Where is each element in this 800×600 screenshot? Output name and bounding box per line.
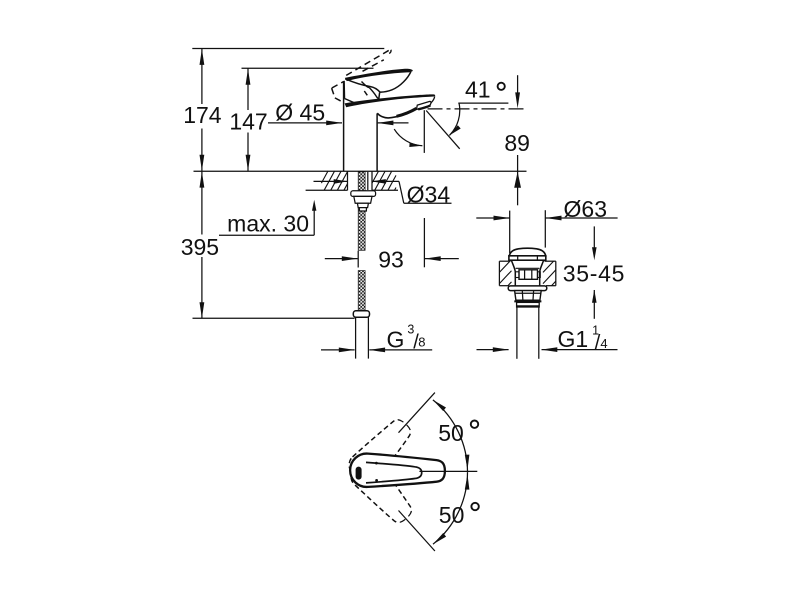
arrowheads dia45 xyxy=(326,121,342,126)
degree sign 41 xyxy=(498,83,505,90)
extension diagonals xyxy=(399,393,435,433)
147 reference line xyxy=(242,67,374,69)
tailpipe G1 1/4 xyxy=(516,307,518,359)
spout tip face xyxy=(431,96,435,103)
column edges xyxy=(343,81,345,171)
arrowheads G1 1/4 xyxy=(493,347,509,352)
svg-text:Ø 45: Ø 45 xyxy=(275,99,325,125)
tailpiece tube G3/8 xyxy=(355,317,357,358)
O34 leader xyxy=(372,180,399,182)
dashed rotated levers xyxy=(343,412,419,529)
hose end fitting xyxy=(353,311,369,317)
degree sign 50 lower xyxy=(471,503,478,510)
spout underside xyxy=(377,109,417,118)
svg-text:174: 174 xyxy=(183,102,222,128)
counter baseline xyxy=(194,170,527,172)
arrowheads dia63 xyxy=(494,216,510,221)
svg-text:max. 30: max. 30 xyxy=(227,210,309,236)
89 dim line xyxy=(517,75,519,98)
solid handle lever (thick) xyxy=(345,69,413,81)
svg-text:8: 8 xyxy=(418,334,425,349)
svg-text:50: 50 xyxy=(438,420,464,446)
degree sign 50 upper xyxy=(471,421,478,428)
lever right curve down to body xyxy=(380,72,411,92)
threaded rod in shank + below xyxy=(358,172,365,251)
93 extension line in hose gap xyxy=(357,251,359,268)
arrows dia34 xyxy=(334,179,348,184)
drain body in deck xyxy=(511,260,515,285)
arrow 147 top xyxy=(246,69,251,85)
50deg arcs xyxy=(433,400,468,472)
svg-text:Ø63: Ø63 xyxy=(564,196,607,222)
spout top edge (thick) xyxy=(345,94,436,107)
flange under deck xyxy=(508,286,547,291)
arrow 395 top xyxy=(200,172,205,188)
shank hole edges xyxy=(347,171,349,190)
svg-text:G: G xyxy=(387,326,405,352)
G3/8 dimension xyxy=(321,349,355,351)
cap dome xyxy=(509,248,545,256)
dash-dot horizontal at aerator level xyxy=(428,108,528,110)
arrow max30 leader xyxy=(312,200,316,211)
arrowheads 41deg arc xyxy=(409,143,422,147)
svg-text:147: 147 xyxy=(229,108,267,134)
stream direction line xyxy=(426,111,460,149)
O63 xyxy=(509,211,511,254)
arrow 395 bottom xyxy=(200,302,205,318)
svg-text:50: 50 xyxy=(439,502,465,528)
svg-text:35-45: 35-45 xyxy=(563,261,625,287)
dim line x=201.9 (174 above / 395 below) xyxy=(201,49,203,105)
svg-text:G1: G1 xyxy=(558,326,589,352)
395 bottom reference line xyxy=(193,317,355,319)
dashed raised handle xyxy=(332,50,391,103)
arrowheads dim 89 xyxy=(515,92,520,108)
arrowheads 35-45 xyxy=(592,247,597,260)
svg-text:4: 4 xyxy=(600,336,607,351)
35-45 xyxy=(593,226,595,250)
locking nut xyxy=(515,291,542,301)
41deg label underline + elbow arc xyxy=(458,102,508,104)
arrows 93 xyxy=(342,256,358,261)
solid lever top view xyxy=(350,454,445,487)
G1 1/4 xyxy=(477,349,509,351)
escutcheon flange + nuts xyxy=(351,191,376,197)
centerline xyxy=(419,470,477,472)
svg-text:Ø34: Ø34 xyxy=(407,181,451,207)
body below handle xyxy=(343,81,345,99)
93 dimension xyxy=(325,258,358,260)
lever underside xyxy=(345,79,380,92)
svg-text:395: 395 xyxy=(181,234,219,260)
aerator xyxy=(417,101,431,109)
max.30 leader xyxy=(219,234,314,236)
arrow 174 top xyxy=(200,49,205,65)
arrow 174 bottom xyxy=(200,155,205,171)
svg-text:41: 41 xyxy=(465,76,491,102)
arrowheads 50deg arcs xyxy=(433,400,446,411)
svg-text:89: 89 xyxy=(504,130,530,156)
top 174 reference line xyxy=(192,48,384,50)
step below nut xyxy=(514,300,541,302)
svg-text:93: 93 xyxy=(378,247,404,273)
arrow 147 bottom xyxy=(246,155,251,171)
vertical ref at spout tip xyxy=(423,110,425,153)
dim line x=248 (147) xyxy=(247,68,249,110)
arrows G3/8 xyxy=(339,348,355,353)
